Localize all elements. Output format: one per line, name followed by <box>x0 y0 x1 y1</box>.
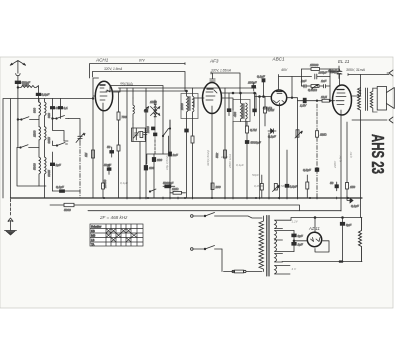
wire top measure 2 <box>93 72 186 92</box>
cathode resistor 150 <box>346 122 356 198</box>
AZ11 anode leads <box>293 240 329 252</box>
bus junction ticks <box>127 197 347 199</box>
svg-text:100: 100 <box>149 166 154 170</box>
ground <box>5 199 17 235</box>
heater bus <box>88 210 341 212</box>
main ground bus <box>11 197 363 199</box>
output transformer T3 secondary <box>370 88 373 112</box>
svg-text:0,1µF: 0,1µF <box>351 204 359 208</box>
svg-text:TA: TA <box>91 243 95 247</box>
power switch S5 <box>193 213 262 219</box>
switch S4 <box>162 120 170 154</box>
svg-text:5000: 5000 <box>33 163 37 170</box>
svg-text:324(1,6mA): 324(1,6mA) <box>206 150 210 166</box>
screen resistor R2 <box>117 92 127 198</box>
capacitor 100uF <box>144 164 154 198</box>
ABC1 grid line <box>255 96 272 98</box>
svg-text:700: 700 <box>122 115 127 119</box>
T2 core <box>243 104 244 119</box>
capacitor 0.1uF on bus <box>53 142 81 199</box>
ABC1 40V line <box>279 75 302 91</box>
svg-text:1100: 1100 <box>47 137 51 144</box>
EL11 grid line <box>298 100 335 102</box>
svg-text:1500: 1500 <box>150 100 157 104</box>
svg-text:ACH1: ACH1 <box>95 58 109 63</box>
svg-text:2000: 2000 <box>146 126 150 134</box>
extra detector branch wires <box>233 122 287 199</box>
capacitor 50uF second <box>104 163 111 174</box>
resistor 0.1M label <box>263 106 273 110</box>
svg-text:72V 5mA: 72V 5mA <box>120 81 132 85</box>
capacitor 50uF cathode <box>107 145 114 157</box>
grid resistor 0.7M <box>246 122 258 141</box>
resistor 0.2M det <box>260 175 263 198</box>
svg-text:1nF: 1nF <box>301 79 306 83</box>
T2 tuning cap right <box>253 93 257 116</box>
antenna coil choke <box>18 83 39 88</box>
tube AF3 <box>203 83 222 114</box>
wire grid AF3 <box>193 98 203 120</box>
osc trimmer left <box>144 107 149 113</box>
svg-text:5000: 5000 <box>64 208 71 212</box>
svg-text:1µF: 1µF <box>298 243 303 247</box>
tuner coil L4a <box>33 157 41 186</box>
AZ11 filaments <box>311 238 321 242</box>
coupling capacitor on grid line <box>300 98 307 107</box>
IF transformer T2 secondary <box>246 103 248 126</box>
EL11 electrodes <box>336 90 346 212</box>
svg-text:0,3MΩ: 0,3MΩ <box>308 88 318 92</box>
tube ACH1 <box>95 81 112 111</box>
capacitor blob mid <box>50 163 60 191</box>
oscillator section wires <box>127 88 146 198</box>
IF transformer T1 secondary <box>193 88 195 136</box>
svg-text:ABC1: ABC1 <box>272 57 285 62</box>
svg-text:0,1µF: 0,1µF <box>42 93 50 97</box>
T1 core <box>189 97 190 111</box>
AF3 electrodes <box>194 89 217 198</box>
padder capacitor blob <box>152 154 162 198</box>
power transformer primary <box>259 216 264 272</box>
svg-text:0,1µF: 0,1µF <box>290 185 298 189</box>
tone pot 0.3M <box>308 85 319 93</box>
svg-text:MB: MB <box>91 234 95 238</box>
plug mid right <box>352 117 393 123</box>
tuner coil L3b <box>45 127 52 157</box>
svg-text:230V: 230V <box>333 160 337 169</box>
tube AZ11 <box>307 232 321 246</box>
svg-text:50: 50 <box>330 181 334 185</box>
IF transformer T1 shield box <box>181 94 198 119</box>
feedback box wires <box>302 69 331 101</box>
grid stopper resistor <box>321 95 330 102</box>
svg-text:LB: LB <box>91 238 95 242</box>
volume pot det <box>273 184 280 192</box>
svg-text:5000pF: 5000pF <box>163 181 173 185</box>
capacitor 50pF top <box>50 99 59 119</box>
tuner coil L4b <box>45 157 52 198</box>
second bus <box>50 205 300 211</box>
tuning gang capacitor C1 <box>76 133 85 143</box>
resistor 10000 <box>102 111 108 199</box>
filter capacitor 1uF <box>292 241 303 252</box>
svg-text:1MΩ: 1MΩ <box>320 133 327 137</box>
ACH1 plate line <box>106 90 186 92</box>
svg-text:0,1: 0,1 <box>64 106 69 110</box>
svg-text:300: 300 <box>47 113 51 118</box>
resistor R4 <box>177 140 180 198</box>
filter capacitor 8uF <box>340 218 351 262</box>
speaker <box>377 87 394 111</box>
feedback resistor 15000 <box>302 63 331 70</box>
svg-text:10µ 4,6mA: 10µ 4,6mA <box>165 155 169 170</box>
grid cap ACH1 <box>97 75 102 77</box>
T1 tuning cap <box>185 90 189 198</box>
filter capacitor 3uF <box>292 231 303 241</box>
svg-text:105pF: 105pF <box>319 71 328 75</box>
cathode capacitor 50 <box>330 181 338 191</box>
svg-text:8µF: 8µF <box>346 223 351 227</box>
svg-text:AZ 11: AZ 11 <box>308 226 320 231</box>
wire x163 screen feed <box>110 86 163 137</box>
svg-text:1100: 1100 <box>33 130 37 137</box>
dash-dot coupling line <box>316 104 318 198</box>
capacitor C15 <box>328 66 341 79</box>
svg-text:1,5V: 1,5V <box>300 104 307 108</box>
mains terminal lower <box>191 248 194 251</box>
switch S4 <box>53 143 68 147</box>
svg-text:250V 1mA: 250V 1mA <box>228 154 232 169</box>
wire det column <box>260 126 276 198</box>
AF3 plate wire <box>221 98 233 110</box>
heater winding 4V <box>275 266 291 275</box>
wire antenna down <box>17 87 19 119</box>
component cluster box <box>133 128 150 145</box>
capacitor 500pF antenna <box>15 81 30 88</box>
switch S1 <box>17 117 39 121</box>
capacitor 1nF right <box>319 79 330 88</box>
AF3 plate line <box>222 92 257 109</box>
scan area tint <box>0 57 393 308</box>
ABC1 plate line right <box>287 77 298 101</box>
svg-text:0,1MΩ: 0,1MΩ <box>263 106 273 110</box>
capacitor 0.1uF det2 <box>285 184 297 188</box>
svg-text:305V, 31mA: 305V, 31mA <box>346 68 366 72</box>
svg-text:10µF: 10µF <box>221 155 228 159</box>
wire x259 down <box>259 97 261 199</box>
svg-text:50pF: 50pF <box>252 173 259 177</box>
gang wire down <box>75 99 77 199</box>
svg-text:1µF: 1µF <box>56 163 61 167</box>
osc link line <box>147 136 169 164</box>
mesh wire 1 <box>53 119 81 142</box>
heater winding EL <box>275 254 283 263</box>
ACH1 electrodes <box>100 85 110 111</box>
svg-text:1nF: 1nF <box>173 153 178 157</box>
svg-text:1nF: 1nF <box>321 79 326 83</box>
svg-text:0,1µF: 0,1µF <box>236 163 244 167</box>
cluster resistor <box>140 132 143 138</box>
resistor R5 screen <box>215 88 227 198</box>
HV secondary winding <box>275 220 292 228</box>
antenna hook <box>16 72 20 81</box>
svg-text:AHS 23: AHS 23 <box>368 134 388 174</box>
output transformer T3 primary <box>358 75 361 218</box>
pickup jack diode <box>347 196 359 208</box>
svg-text:EL 11: EL 11 <box>338 59 350 64</box>
svg-text:50µF: 50µF <box>104 163 111 167</box>
tuner coil L2a <box>33 99 41 127</box>
capacitor 0.1uF det <box>268 134 276 139</box>
wire top measure 1 <box>90 63 186 78</box>
table Schalter <box>90 224 143 247</box>
svg-text:3µF: 3µF <box>298 234 303 238</box>
switch near bus <box>149 189 156 192</box>
svg-text:KB: KB <box>91 229 95 233</box>
bottom power bus <box>282 261 362 263</box>
volume pot R7 <box>295 101 302 199</box>
shield frame lower <box>17 148 46 187</box>
EL11 plate to transformer <box>352 88 361 96</box>
mains terminal upper <box>191 215 194 218</box>
svg-text:4,5V: 4,5V <box>349 151 353 158</box>
svg-text:0,1µF: 0,1µF <box>257 75 265 79</box>
svg-text:2000: 2000 <box>180 103 184 111</box>
svg-text:320V, 1.6mA: 320V, 1.6mA <box>104 67 122 71</box>
tube ABC1 <box>271 90 286 105</box>
wire x80 <box>79 99 81 199</box>
speaker top wire <box>373 88 377 112</box>
fuse <box>222 249 262 273</box>
svg-text:10000: 10000 <box>103 179 107 188</box>
resistor 5000 on bus <box>64 203 74 212</box>
svg-text:0,1µF: 0,1µF <box>120 181 128 185</box>
grid wire to ACH1 <box>92 78 98 198</box>
svg-text:1,2V: 1,2V <box>292 220 299 224</box>
B+ line from rectifier <box>291 217 362 233</box>
svg-text:150: 150 <box>350 185 355 189</box>
capacitor 5000pF <box>163 181 175 188</box>
IF transformer T2 primary <box>233 93 242 122</box>
EL11 screen drop <box>341 229 343 262</box>
ABC1 electrodes <box>274 92 286 106</box>
wire AF3 top measure <box>210 72 240 93</box>
resistor 1M pot row <box>316 131 328 138</box>
svg-text:16,5: 16,5 <box>321 95 327 99</box>
svg-text:50: 50 <box>107 145 111 149</box>
detector diode arrow <box>268 129 276 133</box>
resistor R2b <box>117 145 120 151</box>
bus junction dots <box>103 197 349 199</box>
svg-text:15000: 15000 <box>310 63 319 67</box>
T1 grid resistor <box>191 136 194 198</box>
wire EL11 top <box>348 74 389 76</box>
svg-text:468: 468 <box>233 112 237 117</box>
svg-text:0,2MΩ: 0,2MΩ <box>254 184 264 188</box>
osc padder cluster <box>146 118 157 141</box>
T2 tuning cap left <box>227 93 231 116</box>
series capacitor 105pF <box>315 71 330 80</box>
capacitor 0.5uF <box>303 168 319 172</box>
antenna <box>10 61 25 73</box>
field choke <box>359 218 362 262</box>
svg-text:87V: 87V <box>139 59 146 63</box>
capacitor 0.1uF input <box>36 88 49 103</box>
svg-text:320V, 1.65mA: 320V, 1.65mA <box>211 68 231 72</box>
anode wire ACH1 <box>113 88 120 92</box>
AF3 cathode resistor 200 <box>211 183 221 190</box>
mesh wire 2 <box>53 141 69 163</box>
T3 core <box>366 88 368 111</box>
cluster capacitor <box>144 129 147 140</box>
svg-text:40V: 40V <box>281 68 288 72</box>
transformer core <box>267 216 269 277</box>
IF transformer T1 primary <box>180 91 188 129</box>
resistor lower pot column <box>306 175 309 198</box>
svg-text:0,7M: 0,7M <box>250 128 257 132</box>
osc trimmer C5 <box>134 129 140 141</box>
svg-text:2000: 2000 <box>21 83 29 87</box>
EL11 top capacitor 105pF <box>330 69 342 85</box>
switch S2 <box>17 120 39 149</box>
tuner coil L3a <box>33 127 41 157</box>
capacitor 1nF left <box>301 79 311 88</box>
svg-text:200: 200 <box>215 185 221 189</box>
svg-text:1M: 1M <box>84 152 88 157</box>
capacitor C7 blob <box>169 120 178 198</box>
resistor 1M horizontal <box>170 187 186 194</box>
B+ bus line <box>119 87 257 89</box>
tube EL11 <box>333 85 352 115</box>
tuner coil L2b <box>45 99 52 127</box>
svg-text:0,5MΩ: 0,5MΩ <box>279 184 289 188</box>
svg-text:2000: 2000 <box>47 169 51 177</box>
osc coil L8 variable <box>150 100 160 118</box>
diode resistor 0.1M <box>264 97 275 127</box>
capacitor 5000pF det <box>245 141 261 199</box>
AVC resistor left <box>84 150 95 158</box>
ABC1 grid capacitor 0.1uF <box>257 75 265 97</box>
oscillator coil L7 <box>133 98 135 124</box>
svg-text:Schalter: Schalter <box>91 225 101 229</box>
main HT winding <box>275 231 295 252</box>
plug top right <box>387 70 393 76</box>
svg-text:0,1µF: 0,1µF <box>56 185 64 189</box>
capacitor 100pF top <box>248 81 257 92</box>
svg-text:AF3: AF3 <box>209 59 219 64</box>
top wire tuner <box>11 98 94 100</box>
svg-text:100pF: 100pF <box>248 81 257 85</box>
svg-text:0,5µF: 0,5µF <box>303 168 311 172</box>
svg-text:105pF: 105pF <box>330 70 339 74</box>
ABC1 plate lead down <box>279 105 281 198</box>
svg-text:900: 900 <box>33 108 37 113</box>
capacitor 0.1uF second <box>58 99 68 119</box>
wire x76 upper <box>75 119 77 134</box>
IF transformer T2 shield box <box>233 100 250 122</box>
left frame wires <box>3 99 93 199</box>
svg-text:50k: 50k <box>215 153 219 158</box>
svg-text:330: 330 <box>157 158 162 162</box>
svg-text:6,3V: 6,3V <box>339 155 343 162</box>
switch S3 <box>52 116 69 120</box>
svg-text:2F = 468 kHz: 2F = 468 kHz <box>99 215 128 220</box>
power switch S6 <box>193 246 222 250</box>
